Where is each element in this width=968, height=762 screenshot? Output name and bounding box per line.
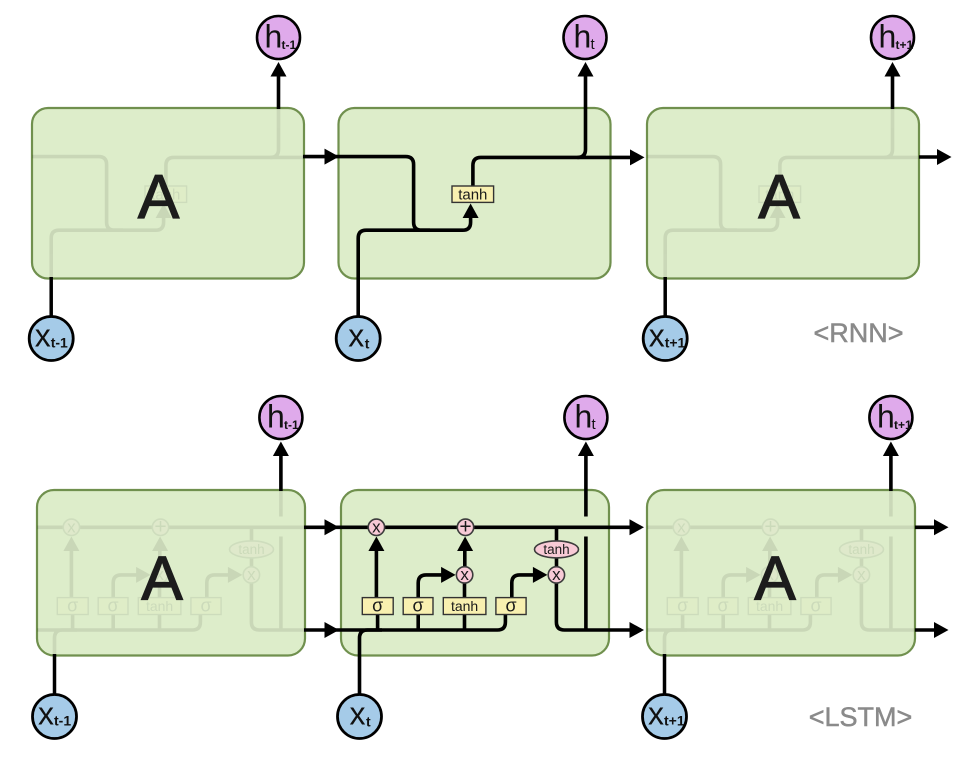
svg-text:h: h <box>575 399 593 435</box>
svg-text:A: A <box>141 545 183 614</box>
RNN cell box t+1 <box>647 108 919 279</box>
wire: x t+1 connector <box>663 277 667 317</box>
wire: x t-1 connector lstm <box>53 654 57 695</box>
svg-text:A: A <box>758 163 800 232</box>
svg-text:x: x <box>649 318 665 354</box>
svg-text:t+1: t+1 <box>894 418 912 432</box>
faded wiring in LSTM box t-1 <box>0 442 339 695</box>
LSTM cell box t-1 <box>37 490 305 656</box>
wire: RNN exit arrow right <box>919 149 952 165</box>
svg-text:t-1: t-1 <box>54 713 71 729</box>
svg-text:x: x <box>35 318 51 354</box>
wire: x t-1 connector <box>49 277 53 317</box>
wire: h t+1 arrow lstm <box>883 442 899 492</box>
RNN cell box t-1 <box>32 108 304 279</box>
svg-text:x: x <box>348 318 364 354</box>
svg-text:h: h <box>267 399 285 435</box>
svg-text:t+1: t+1 <box>665 335 686 351</box>
svg-text:h: h <box>265 19 283 55</box>
node h t+1 <box>871 16 914 59</box>
RNN middle cell wiring <box>303 62 645 317</box>
svg-text:t-1: t-1 <box>51 335 68 351</box>
svg-text:t+1: t+1 <box>896 38 914 52</box>
node x t <box>336 317 380 361</box>
faded wiring in LSTM box t+1 <box>609 442 949 695</box>
node h t <box>564 16 607 59</box>
wire: x t+1 connector lstm <box>663 654 667 695</box>
svg-text:t: t <box>365 336 370 352</box>
LSTM cell box t+1 <box>647 490 915 656</box>
svg-text:x: x <box>38 696 54 732</box>
node x t lstm <box>338 695 382 739</box>
svg-text:x: x <box>648 696 664 732</box>
svg-text:h: h <box>574 19 592 55</box>
node x t+1 lstm <box>643 695 687 739</box>
node h t+1 lstm <box>869 396 912 439</box>
LSTM middle cell wiring <box>304 442 644 695</box>
faded wiring in RNN box t+1 <box>610 62 952 317</box>
svg-text:h: h <box>877 399 895 435</box>
LSTM cell box t <box>341 490 609 656</box>
RNN cell box t <box>339 108 611 279</box>
wire: h t-1 arrow <box>271 62 287 109</box>
node x t-1 <box>29 317 73 361</box>
svg-text:h: h <box>879 19 897 55</box>
svg-text:t-1: t-1 <box>282 38 297 52</box>
wire: LSTM exit arrow top right <box>915 519 949 535</box>
wire: LSTM exit arrow bottom right <box>915 622 949 638</box>
node h t lstm <box>564 396 607 439</box>
svg-text:t: t <box>366 714 371 730</box>
svg-text:A: A <box>138 163 180 232</box>
svg-text:<LSTM>: <LSTM> <box>809 702 913 732</box>
faded wiring in RNN box t-1 <box>0 62 338 317</box>
node h t-1 lstm <box>259 396 302 439</box>
svg-text:t-1: t-1 <box>284 418 299 432</box>
node x t-1 lstm <box>33 695 77 739</box>
svg-text:<RNN>: <RNN> <box>813 318 903 348</box>
wire: h t-1 arrow lstm <box>273 442 289 492</box>
node h t-1 <box>257 16 300 59</box>
svg-text:x: x <box>350 696 366 732</box>
svg-text:A: A <box>754 545 796 614</box>
svg-text:t+1: t+1 <box>664 713 685 729</box>
wire: h t+1 arrow <box>885 62 901 109</box>
node x t+1 <box>643 317 687 361</box>
